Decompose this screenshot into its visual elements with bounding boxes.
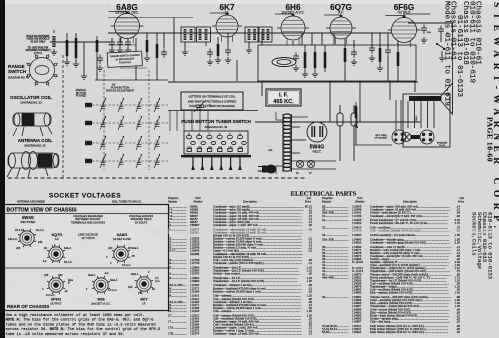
IF transformer T2 xyxy=(245,27,258,42)
svg-text:Note A: Note A xyxy=(64,247,72,250)
wire xyxy=(111,38,113,42)
wire xyxy=(344,39,346,44)
ground xyxy=(182,49,188,55)
svg-text:A.F.: A.F. xyxy=(55,237,60,241)
svg-text:.12: .12 xyxy=(308,249,312,253)
push button tuner switch pictorial S3 xyxy=(184,131,248,154)
wire xyxy=(395,100,397,130)
ground xyxy=(144,55,150,61)
tube V1 xyxy=(109,11,144,43)
wire xyxy=(168,81,418,83)
wire xyxy=(400,100,402,130)
wire xyxy=(236,60,238,81)
wire xyxy=(441,51,443,56)
wire xyxy=(176,111,178,131)
socket speaker plug xyxy=(420,130,434,144)
wire xyxy=(135,38,137,80)
capacitor xyxy=(351,49,357,58)
ground xyxy=(81,73,87,79)
svg-text:DIAGRAM NO. 34: DIAGRAM NO. 34 xyxy=(205,125,228,129)
ground xyxy=(117,47,123,53)
note range switch position xyxy=(107,51,142,67)
coil L5 oval xyxy=(272,58,296,67)
coil xyxy=(184,29,187,40)
wire xyxy=(95,79,168,81)
resistor xyxy=(344,48,347,62)
svg-text:.15: .15 xyxy=(308,332,312,336)
svg-text:240: 240 xyxy=(58,273,63,277)
wire xyxy=(156,62,158,80)
tube V2 xyxy=(210,13,242,42)
svg-text:REAR OF CHASSIS: REAR OF CHASSIS xyxy=(7,304,49,309)
wire xyxy=(440,35,442,42)
detector loop xyxy=(258,45,416,81)
speaker SP1 box xyxy=(403,94,450,147)
svg-text:PLUG: PLUG xyxy=(439,145,445,147)
wire xyxy=(108,17,193,19)
dashed wire switch xyxy=(103,70,105,170)
svg-text:DIAGRAM NO. 26: DIAGRAM NO. 26 xyxy=(24,144,46,148)
range switch pictorial S1 xyxy=(26,54,58,86)
coil xyxy=(205,29,208,40)
svg-text:2nd DET.-A.V.C.: 2nd DET.-A.V.C. xyxy=(281,11,304,15)
ground xyxy=(109,47,115,53)
wire xyxy=(304,45,306,48)
wire xyxy=(255,121,420,123)
wire xyxy=(112,59,141,61)
svg-text:Price: Price xyxy=(304,199,312,203)
svg-text:SWITCH: SWITCH xyxy=(8,69,27,74)
ground xyxy=(64,59,70,65)
svg-text:AND SWITCH PICTORIALS CORRES: AND SWITCH PICTORIALS CORRES xyxy=(188,99,237,103)
wire xyxy=(276,112,283,120)
svg-text:A.F.: A.F. xyxy=(338,11,344,15)
wire lead xyxy=(292,152,301,154)
wire xyxy=(389,81,391,100)
svg-text:I.F.: I.F. xyxy=(142,302,146,306)
wire xyxy=(66,33,68,36)
svg-text:6K7: 6K7 xyxy=(140,297,148,302)
capacitor xyxy=(161,49,167,58)
socket 6Q7G xyxy=(47,245,65,263)
svg-text:+OL: +OL xyxy=(268,149,273,152)
oscillator coil pictorial L2 xyxy=(13,113,52,136)
svg-text:DIAGRAM NO. 33: DIAGRAM NO. 33 xyxy=(20,101,42,105)
wire xyxy=(183,111,185,131)
wire xyxy=(437,44,445,49)
svg-text:TERMINALS AND CHASSIS: TERMINALS AND CHASSIS xyxy=(71,220,105,224)
wire xyxy=(321,33,323,45)
coil xyxy=(199,29,202,40)
capacitor xyxy=(421,25,427,34)
wire xyxy=(339,126,341,161)
wire xyxy=(205,42,207,46)
svg-text:SOCKET VOLTAGES: SOCKET VOLTAGES xyxy=(49,193,121,200)
wire xyxy=(96,56,98,80)
speaker cone xyxy=(441,83,453,114)
resistor xyxy=(156,44,159,58)
wire xyxy=(119,38,121,42)
svg-text:Description: Description xyxy=(402,199,417,203)
wire xyxy=(353,105,355,113)
wire xyxy=(207,111,209,131)
svg-text:C: C xyxy=(209,104,211,107)
wire xyxy=(227,33,229,46)
svg-text:.05: .05 xyxy=(456,320,460,324)
svg-text:RECTIFIER: RECTIFIER xyxy=(21,220,36,224)
ground xyxy=(351,59,357,65)
wire xyxy=(75,33,77,36)
coil xyxy=(253,29,256,40)
svg-text:ANTENNA GROUNDED: ANTENNA GROUNDED xyxy=(17,200,45,204)
wire xyxy=(169,111,171,131)
wire xyxy=(261,81,263,96)
scan streak artifact xyxy=(150,229,499,235)
ground xyxy=(51,49,57,55)
capacitor xyxy=(293,53,299,62)
resistor xyxy=(324,52,327,68)
wire xyxy=(355,144,392,146)
svg-text:2nd DET.-A.V.C.: 2nd DET.-A.V.C. xyxy=(91,302,111,306)
ground xyxy=(246,47,252,53)
capacitor xyxy=(125,39,131,48)
wire xyxy=(120,67,147,69)
coil xyxy=(52,36,55,47)
resistor xyxy=(379,48,382,62)
antenna coil pictorial L1 xyxy=(7,152,59,179)
ground xyxy=(215,57,221,63)
wire xyxy=(333,33,335,45)
wire xyxy=(184,42,186,50)
wire xyxy=(83,42,85,74)
wire xyxy=(355,122,357,145)
svg-text:1.20: 1.20 xyxy=(307,309,313,313)
wire xyxy=(191,111,193,131)
wire xyxy=(108,32,392,34)
wire xyxy=(156,33,158,40)
capacitor xyxy=(97,55,103,64)
svg-text:240: 240 xyxy=(38,240,43,244)
wire xyxy=(397,70,399,81)
svg-text:15 VOLTS: 15 VOLTS xyxy=(135,220,148,224)
wire xyxy=(199,111,201,131)
svg-text:Number: Number xyxy=(321,199,332,203)
wire xyxy=(173,18,175,83)
svg-text:6A8G: 6A8G xyxy=(117,232,127,237)
wire xyxy=(359,81,361,122)
trimmer C xyxy=(194,100,206,112)
svg-text:6Q7G: 6Q7G xyxy=(52,232,63,237)
wire xyxy=(414,81,416,92)
ground xyxy=(293,65,299,71)
wire xyxy=(314,45,316,48)
svg-text:60 A.C.: 60 A.C. xyxy=(64,260,73,264)
note IF 465 KC xyxy=(266,89,301,106)
svg-text:117 VOLTS: 117 VOLTS xyxy=(81,236,94,240)
wire xyxy=(311,33,313,45)
svg-text:2.50: 2.50 xyxy=(455,240,461,244)
AC plug P2 xyxy=(266,165,277,174)
svg-text:.05: .05 xyxy=(456,330,460,334)
resistor xyxy=(397,52,400,66)
wire xyxy=(276,166,283,174)
page left edge bar xyxy=(0,0,5,338)
wire lead xyxy=(292,160,337,162)
svg-text:Number: Number xyxy=(192,199,203,203)
svg-text:I.F.: I.F. xyxy=(225,11,229,15)
svg-text:01-613 ONLY: 01-613 ONLY xyxy=(30,40,46,43)
svg-text:Price: Price xyxy=(457,199,465,203)
wire xyxy=(344,66,346,81)
wire xyxy=(379,33,381,48)
svg-text:6H6: 6H6 xyxy=(97,297,105,302)
svg-text:LETTERS ON TERMINALS OF COIL: LETTERS ON TERMINALS OF COIL xyxy=(188,95,235,99)
wire xyxy=(353,126,355,161)
svg-text:-3.2: -3.2 xyxy=(42,259,47,263)
resistor xyxy=(314,52,317,68)
svg-text:tubes and on the diode plates: tubes and on the diode plates of the 6H6… xyxy=(6,322,156,327)
wire xyxy=(146,33,148,38)
wire xyxy=(408,22,453,24)
wire xyxy=(108,44,136,46)
svg-text:FIELD: FIELD xyxy=(416,115,418,122)
svg-text:Note A: Note A xyxy=(110,279,118,282)
svg-text:Note A: Note A xyxy=(88,274,96,277)
svg-text:240: 240 xyxy=(128,285,133,289)
svg-text:Note A: Note A xyxy=(131,273,139,276)
wire xyxy=(292,41,294,45)
socket 5W4G xyxy=(18,229,36,247)
wire xyxy=(324,45,326,48)
wire xyxy=(404,14,430,18)
ground xyxy=(377,65,383,71)
power transformer T4 xyxy=(283,114,291,118)
resistor xyxy=(66,40,69,56)
wire xyxy=(248,42,250,48)
chassis box xyxy=(5,205,169,311)
ground xyxy=(312,71,318,77)
svg-text:DIAL TUNED TO 640 KC.: DIAL TUNED TO 640 KC. xyxy=(112,200,142,204)
capacitor xyxy=(109,39,115,48)
tube V5 xyxy=(386,15,421,47)
socket 6F6G xyxy=(47,276,65,294)
svg-text:6.0 A.C.: 6.0 A.C. xyxy=(108,288,118,292)
coil xyxy=(190,29,193,40)
svg-text:-75: -75 xyxy=(131,254,135,258)
svg-text:PAGE 10-60: PAGE 10-60 xyxy=(486,117,495,162)
svg-text:225: 225 xyxy=(44,273,49,277)
ground xyxy=(439,55,445,61)
ground xyxy=(302,71,308,77)
svg-text:OUTPUT: OUTPUT xyxy=(50,302,62,306)
tube V6 5W4G rectifier xyxy=(307,122,327,142)
resistor xyxy=(304,52,307,68)
svg-text:240: 240 xyxy=(108,246,113,250)
svg-text:240: 240 xyxy=(138,291,143,295)
wire xyxy=(353,40,355,48)
svg-text:SWITCH ADJUSTMENT: SWITCH ADJUSTMENT xyxy=(106,89,135,93)
wire lead xyxy=(292,126,301,128)
coil xyxy=(267,29,270,40)
push button switch rows xyxy=(85,103,92,107)
capacitor xyxy=(385,47,391,56)
wire lead xyxy=(292,139,307,141)
wire cone top xyxy=(452,23,454,83)
svg-text:Use a high resistance voltmete: Use a high resistance voltmeter of at le… xyxy=(6,313,145,318)
capacitor xyxy=(225,47,231,56)
resistor xyxy=(75,38,78,58)
svg-text:-22: -22 xyxy=(64,289,68,293)
svg-text:A.C.: A.C. xyxy=(155,279,160,283)
tube V4 xyxy=(324,15,356,44)
ground xyxy=(207,59,213,65)
speaker field coils xyxy=(407,101,409,128)
resistor xyxy=(217,44,220,56)
svg-text:NOTE A: The bias for the contr: NOTE A: The bias for the control grids o… xyxy=(6,318,155,323)
svg-text:OF SOCKET: OF SOCKET xyxy=(375,138,388,140)
wire xyxy=(329,81,331,122)
ground xyxy=(125,47,131,53)
wire xyxy=(163,33,165,48)
socket 6A8G xyxy=(112,245,130,263)
ground xyxy=(97,65,103,71)
coil xyxy=(248,29,251,40)
output transformer T5 xyxy=(409,96,441,101)
coil between sockets xyxy=(411,135,420,139)
wire xyxy=(53,30,55,33)
lamp socket xyxy=(402,133,411,142)
wire lead xyxy=(292,116,309,118)
socket 6K7 xyxy=(135,275,153,293)
svg-text:Chassis 010-61: Chassis 010-61 xyxy=(474,1,482,65)
svg-text:20 A.C.: 20 A.C. xyxy=(15,228,24,232)
svg-text:6.0 A.C.: 6.0 A.C. xyxy=(122,263,132,267)
capacitor C31 electrolytic xyxy=(351,113,357,126)
svg-text:-3.2: -3.2 xyxy=(104,271,109,275)
wire xyxy=(387,56,389,81)
svg-text:240 A.C.: 240 A.C. xyxy=(8,237,18,241)
ground xyxy=(73,61,79,67)
svg-text:20 A.C.: 20 A.C. xyxy=(36,228,45,232)
resistor xyxy=(96,40,99,52)
svg-text:Number: Number xyxy=(167,199,178,203)
tube V3 xyxy=(275,14,309,45)
capacitor xyxy=(438,26,444,35)
svg-text:465 KC.: 465 KC. xyxy=(273,99,294,105)
svg-text:1st DET. & OSC.: 1st DET. & OSC. xyxy=(115,11,139,15)
svg-text:OSCILLATOR COIL: OSCILLATOR COIL xyxy=(10,95,52,100)
svg-text:tube is —16 volts measured acr: tube is —16 volts measured across resist… xyxy=(6,332,125,337)
svg-text:1st DET & OSC: 1st DET & OSC xyxy=(113,237,131,241)
wire xyxy=(387,33,389,48)
ground xyxy=(225,57,231,63)
svg-text:RECT.: RECT. xyxy=(313,150,322,154)
wire lead xyxy=(292,168,337,170)
capacitor C30 electrolytic xyxy=(337,113,343,126)
socket 6H6 xyxy=(92,276,110,294)
wire xyxy=(397,42,399,48)
dashed wire xyxy=(62,55,64,177)
svg-text:PUSH BUTTON TUNER SWITCH: PUSH BUTTON TUNER SWITCH xyxy=(181,119,251,124)
svg-text:Description: Description xyxy=(242,199,257,203)
wire xyxy=(301,33,303,45)
svg-text:240: 240 xyxy=(16,246,21,250)
capacitor xyxy=(369,45,375,54)
capacitor xyxy=(117,39,123,48)
wire xyxy=(168,110,258,112)
svg-text:Number: Number xyxy=(354,199,365,203)
resistor xyxy=(355,106,358,118)
wire xyxy=(261,33,263,45)
IF transformer T1 xyxy=(181,27,195,42)
svg-text:across resistor 36. NOTE B: T: across resistor 36. NOTE B: The bias for… xyxy=(6,327,161,332)
scan speckle xyxy=(165,51,168,54)
svg-text:I. F.: I. F. xyxy=(279,93,288,99)
svg-text:42A: 42A xyxy=(427,31,431,34)
ground xyxy=(369,55,375,61)
coil xyxy=(262,29,265,40)
wire xyxy=(339,105,341,113)
wire xyxy=(50,41,114,43)
resistor xyxy=(146,40,149,52)
note letters on terminals xyxy=(181,92,243,110)
ground xyxy=(421,37,427,43)
capacitor xyxy=(207,49,213,58)
wire xyxy=(371,33,373,48)
wire xyxy=(217,37,219,40)
dial lamp I1 xyxy=(296,160,303,167)
svg-text:A TO X: A TO X xyxy=(34,52,43,55)
svg-text:95 Note A: 95 Note A xyxy=(128,247,139,250)
svg-text:ANTENNA COIL: ANTENNA COIL xyxy=(18,138,53,143)
svg-text:BOTTOM VIEW OF CHASSIS: BOTTOM VIEW OF CHASSIS xyxy=(7,208,78,214)
svg-text:PUSHED: PUSHED xyxy=(76,95,87,98)
dashed wire bottom xyxy=(8,177,307,179)
svg-text:3.75: 3.75 xyxy=(455,221,461,225)
dial lamp I2 xyxy=(307,160,314,167)
socket plug 4pin xyxy=(392,130,406,144)
wire xyxy=(127,38,129,42)
